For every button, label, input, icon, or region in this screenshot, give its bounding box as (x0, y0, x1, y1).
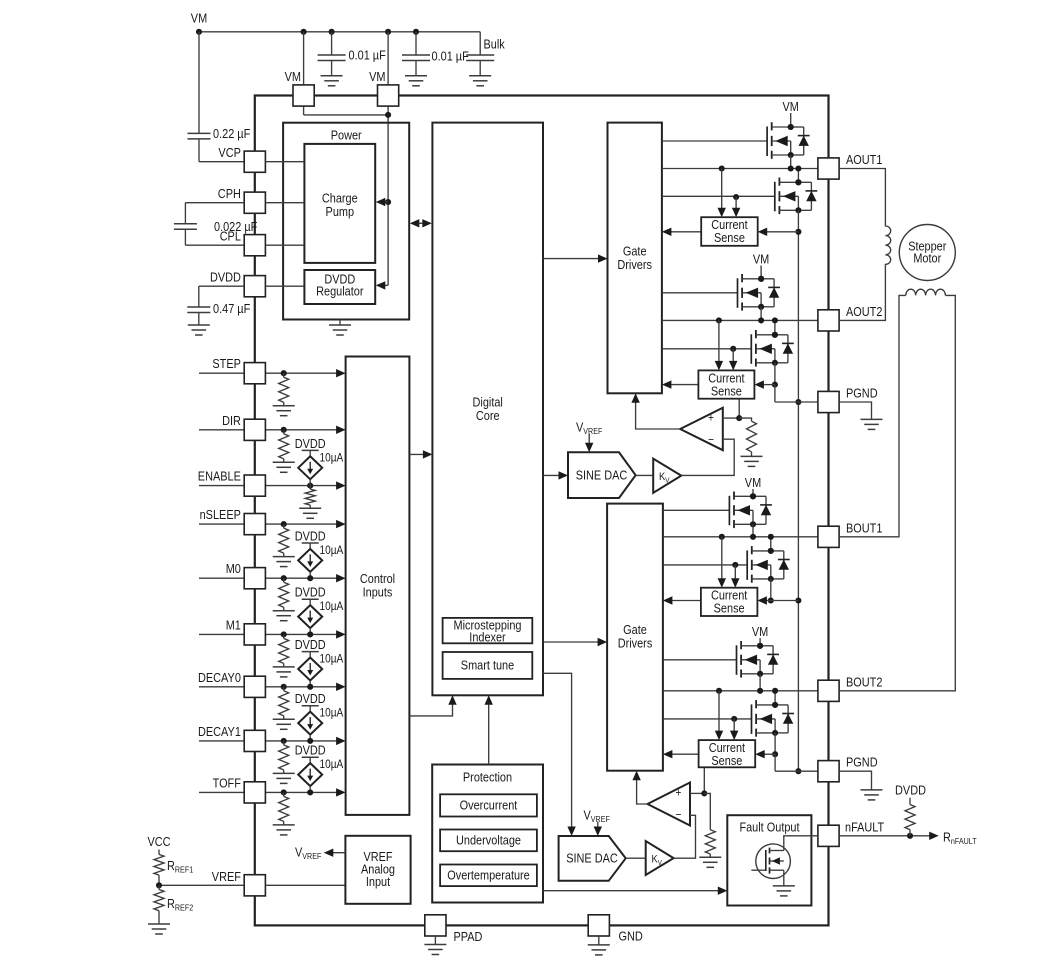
svg-text:RREF1: RREF1 (167, 858, 193, 875)
amplifier KV A (653, 459, 681, 493)
svg-text:PGND: PGND (846, 755, 878, 770)
svg-text:BOUT1: BOUT1 (846, 520, 882, 535)
svg-text:Fault Output: Fault Output (739, 819, 799, 834)
svg-text:Indexer: Indexer (469, 630, 506, 645)
terminal DVDD (210, 270, 265, 297)
amplifier KV B (646, 841, 674, 875)
svg-text:Pump: Pump (326, 204, 355, 219)
svg-text:10µA: 10µA (320, 450, 344, 464)
wire comparator A output to Gate Drivers A (631, 393, 680, 429)
svg-text:10µA: 10µA (320, 652, 344, 666)
wire BOUT2 net (663, 690, 818, 692)
current source 10uA pull-up M0 (295, 529, 343, 582)
block DVDD Regulator (304, 270, 375, 304)
wire VM terminal 1 drop (304, 32, 389, 115)
node VVREF B (584, 807, 610, 836)
terminal GND (588, 915, 643, 944)
resistor pulldown STEP (273, 370, 295, 416)
transistor Fault Output FET (751, 844, 795, 896)
svg-text:CPL: CPL (220, 229, 241, 244)
current source 10uA pull-up DECAY0 (295, 637, 343, 690)
svg-text:Overcurrent: Overcurrent (460, 798, 518, 813)
svg-text:nFAULT: nFAULT (845, 820, 884, 835)
svg-text:VCP: VCP (218, 145, 241, 160)
wire VM rail (196, 29, 480, 35)
capacitor 0.01uF (second) (402, 32, 469, 86)
svg-text:PPAD: PPAD (454, 929, 483, 944)
terminal TOFF (213, 775, 266, 803)
svg-text:Protection: Protection (463, 769, 512, 784)
current source 10uA pull-up DECAY1 (295, 691, 343, 744)
block Current Sense A1 (662, 165, 799, 245)
wire VM to DVDD regulator (376, 281, 388, 289)
svg-text:Inputs: Inputs (363, 585, 393, 600)
wire BOUT1 net (663, 536, 818, 538)
terminal VM (right) (369, 69, 399, 106)
wire sense rail PGND (795, 232, 801, 774)
wire DECAY1 input (199, 737, 346, 745)
wire CPH to Charge Pump (265, 202, 304, 204)
block SINE DAC A (568, 452, 636, 498)
svg-text:KV: KV (652, 854, 662, 868)
svg-text:DVDD: DVDD (295, 436, 326, 451)
svg-text:DIR: DIR (222, 413, 241, 428)
resistor sense B (699, 793, 721, 867)
svg-text:Sense: Sense (711, 383, 742, 398)
block VREF Analog Input (345, 836, 410, 904)
wire BOUT1 to motor (839, 295, 906, 536)
svg-text:nSLEEP: nSLEEP (200, 507, 241, 522)
svg-text:Regulator: Regulator (316, 284, 364, 299)
svg-text:VVREF: VVREF (295, 845, 321, 862)
comparator A (680, 408, 723, 451)
wire Power to Digital Core (double arrow) (410, 219, 432, 227)
svg-text:BOUT2: BOUT2 (846, 674, 882, 689)
resistor RREF2 (148, 885, 193, 934)
current source 10uA pull-up M1 (295, 585, 343, 638)
wire Protection to Fault Output (543, 887, 727, 895)
terminal DECAY1 (198, 724, 265, 752)
svg-text:ENABLE: ENABLE (198, 469, 241, 484)
capacitor 0.47uF (187, 286, 250, 335)
wire CPL to Charge Pump (265, 244, 304, 246)
resistor DVDD pull-up nFAULT (895, 783, 926, 836)
current source 10uA pull-up TOFF (295, 743, 343, 796)
svg-text:0.01 µF: 0.01 µF (349, 48, 386, 63)
svg-text:AOUT1: AOUT1 (846, 152, 882, 167)
resistor pulldown TOFF (273, 789, 295, 835)
stepper motor (899, 225, 955, 281)
terminal M0 (226, 561, 266, 589)
wire comparator B output to Gate Drivers B (632, 771, 647, 804)
transistor high-side A2 (662, 251, 780, 323)
terminal VREF (212, 869, 266, 896)
transistor high-side A1 (662, 99, 810, 172)
wire Digital Core to Gate Drivers B (543, 638, 607, 646)
ground Power block (329, 320, 351, 336)
terminal DECAY0 (198, 670, 265, 698)
transistor high-side B1 (663, 475, 772, 540)
wire+inductor motor phase A (839, 169, 891, 321)
capacitor 0.022uF (174, 203, 257, 246)
wire Protection to Digital Core (485, 695, 493, 764)
svg-text:Sense: Sense (714, 230, 745, 245)
node VCC (147, 834, 170, 849)
ground GND terminal (588, 936, 610, 955)
svg-text:M1: M1 (226, 617, 241, 632)
terminal nFAULT (818, 820, 884, 847)
svg-text:AOUT2: AOUT2 (846, 304, 882, 319)
capacitor 0.22uF (188, 32, 251, 162)
terminal STEP (212, 356, 265, 384)
svg-text:CPH: CPH (218, 186, 241, 201)
block Current Sense A2 (662, 317, 775, 398)
svg-text:Sense: Sense (711, 753, 742, 768)
wire AOUT2 net (662, 319, 818, 321)
svg-text:DVDD: DVDD (895, 783, 926, 798)
wire PGND B line (775, 770, 818, 772)
svg-text:Smart tune: Smart tune (461, 658, 514, 673)
svg-text:Overtemperature: Overtemperature (447, 868, 530, 883)
terminal PPAD (425, 915, 483, 944)
block Overcurrent (440, 794, 537, 816)
resistor pulldown DECAY0 (273, 684, 295, 730)
svg-text:DVDD: DVDD (295, 691, 326, 706)
svg-text:VM: VM (285, 69, 301, 84)
svg-text:DVDD: DVDD (295, 585, 326, 600)
resistor pulldown M1 (273, 631, 295, 677)
resistor pulldown DIR (273, 427, 295, 473)
ground PGND B (839, 771, 883, 800)
block Control Inputs (346, 357, 410, 815)
transistor low-side A2 (662, 317, 794, 402)
terminal nSLEEP (200, 507, 266, 535)
wire VCP to Charge Pump (265, 161, 304, 163)
wire SINE DAC A to KV (636, 474, 654, 476)
svg-text:RnFAULT: RnFAULT (943, 830, 977, 847)
block Current Sense B2 (663, 688, 775, 768)
transistor low-side B2 (663, 688, 794, 771)
svg-text:DVDD: DVDD (210, 270, 241, 285)
svg-text:Input: Input (366, 874, 391, 889)
block Current Sense B1 (663, 534, 771, 616)
wire Control Inputs to Digital Core (409, 450, 432, 458)
svg-text:SINE DAC: SINE DAC (576, 468, 628, 483)
wire nFAULT drain (784, 836, 819, 851)
svg-text:VM: VM (783, 99, 799, 114)
transistor low-side A1 (662, 165, 817, 234)
wire Current Sense B2 to comparator B plus (690, 767, 707, 796)
resistor pulldown nSLEEP (273, 521, 295, 567)
svg-text:Motor: Motor (913, 250, 941, 265)
svg-text:10µA: 10µA (320, 757, 344, 771)
wire KV B to comparator B minus (674, 815, 696, 858)
wire VREF external (156, 882, 244, 888)
block Charge Pump (304, 144, 375, 263)
svg-text:Power: Power (331, 128, 363, 143)
svg-text:PGND: PGND (846, 385, 878, 400)
comparator B (648, 783, 691, 826)
block Microstepping Indexer (443, 618, 533, 645)
wire M1 input (199, 630, 346, 638)
block Gate Drivers B (607, 504, 663, 771)
transistor low-side B1 (663, 534, 799, 604)
svg-text:+: + (708, 411, 714, 425)
wire nFAULT external (839, 832, 939, 840)
terminal CPL (220, 229, 266, 256)
block Overtemperature (440, 865, 537, 887)
block Smart tune (443, 652, 533, 679)
wire STEP input (199, 369, 346, 377)
svg-text:VM: VM (753, 251, 769, 266)
svg-text:GND: GND (619, 928, 643, 943)
terminal PGND A (818, 385, 878, 412)
node RnFAULT label (943, 830, 977, 847)
block Fault Output (727, 815, 811, 905)
ground PGND A (839, 402, 883, 429)
block Digital Core (432, 123, 543, 696)
terminal BOUT1 (818, 520, 883, 547)
svg-text:DVDD: DVDD (295, 529, 326, 544)
current source 10uA pull-up ENABLE (295, 436, 343, 486)
wire DECAY0 input (199, 683, 346, 691)
resistor pulldown M0 (273, 575, 295, 621)
wire DIR input (199, 426, 346, 434)
svg-text:M0: M0 (226, 561, 241, 576)
resistor sense A (739, 418, 762, 466)
wire DVDD to regulator (265, 285, 304, 287)
wire Current Sense A2 to comparator A plus (723, 399, 742, 421)
terminal PGND B (818, 755, 878, 782)
terminal CPH (218, 186, 266, 213)
svg-text:Drivers: Drivers (618, 635, 653, 650)
terminal AOUT2 (818, 304, 883, 331)
wire Smart tune to SINE DAC B (543, 673, 576, 836)
svg-text:−: − (676, 808, 682, 822)
svg-text:10µA: 10µA (320, 706, 344, 720)
svg-text:−: − (708, 433, 714, 447)
svg-text:DVDD: DVDD (295, 637, 326, 652)
block Undervoltage (440, 830, 537, 852)
svg-text:Undervoltage: Undervoltage (456, 833, 521, 848)
node VVREF A (576, 420, 602, 453)
wire M0 input (199, 574, 346, 582)
block SINE DAC B (559, 836, 626, 881)
svg-text:+: + (676, 786, 682, 800)
wire SINE DAC B to KV (626, 857, 646, 859)
svg-text:VM: VM (745, 475, 761, 490)
svg-text:VM: VM (752, 624, 768, 639)
capacitor 0.01uF (first) (318, 32, 386, 86)
terminal AOUT1 (818, 152, 883, 179)
svg-text:0.01 µF: 0.01 µF (432, 49, 469, 64)
terminal BOUT2 (818, 674, 883, 701)
block Protection (432, 765, 543, 903)
svg-text:KV: KV (659, 471, 669, 485)
wire ENABLE input (199, 481, 346, 489)
svg-text:VVREF: VVREF (584, 807, 610, 824)
wire KV A to comparator A minus (681, 439, 734, 475)
wire PGND A line (775, 401, 818, 403)
block Gate Drivers A (608, 123, 662, 394)
svg-text:TOFF: TOFF (213, 775, 241, 790)
wire VM to charge pump (376, 198, 388, 206)
terminal DIR (222, 413, 265, 441)
svg-text:Sense: Sense (714, 601, 745, 616)
ground PPAD (424, 936, 446, 955)
svg-text:VM: VM (369, 69, 385, 84)
wire Digital Core to Gate Drivers A (543, 254, 608, 262)
wire VREF to analog input (265, 884, 345, 886)
resistor RREF1 (154, 850, 193, 886)
resistor pulldown DECAY1 (273, 738, 295, 784)
wire VVREF output (295, 845, 345, 862)
svg-text:VM: VM (191, 11, 207, 26)
svg-text:DECAY1: DECAY1 (198, 724, 241, 739)
svg-text:0.47 µF: 0.47 µF (213, 301, 250, 316)
svg-text:STEP: STEP (212, 356, 241, 371)
svg-text:10µA: 10µA (320, 599, 344, 613)
svg-text:Bulk: Bulk (484, 37, 506, 52)
chip outline (255, 96, 829, 926)
transistor high-side B2 (663, 624, 779, 694)
inductor motor phase B (906, 289, 946, 295)
svg-text:DECAY0: DECAY0 (198, 670, 241, 685)
svg-text:10µA: 10µA (320, 543, 344, 557)
terminal M1 (226, 617, 266, 645)
capacitor Bulk (466, 32, 505, 86)
svg-text:0.22 µF: 0.22 µF (213, 126, 250, 141)
svg-text:Drivers: Drivers (617, 257, 652, 272)
wire nSLEEP input (199, 520, 346, 528)
block Power (283, 123, 409, 320)
svg-text:Core: Core (476, 408, 500, 423)
wire VM terminal 2 drop / internal VM net (385, 32, 391, 286)
terminal VM (left) (285, 69, 315, 106)
svg-text:VCC: VCC (147, 834, 170, 849)
node VM supply label (191, 11, 207, 26)
svg-text:RREF2: RREF2 (167, 896, 193, 913)
wire BOUT2 to motor (839, 295, 956, 690)
wire TOFF input (199, 788, 346, 796)
svg-text:VREF: VREF (212, 869, 241, 884)
wire AOUT1 net (662, 168, 818, 170)
terminal ENABLE (198, 469, 266, 497)
wire Control Inputs to Digital Core bottom (409, 695, 456, 716)
resistor pulldown ENABLE (299, 483, 321, 519)
terminal VCP (218, 145, 265, 172)
svg-text:SINE DAC: SINE DAC (566, 851, 618, 866)
svg-text:DVDD: DVDD (295, 743, 326, 758)
wire Digital Core to SINE DAC A (543, 471, 568, 479)
